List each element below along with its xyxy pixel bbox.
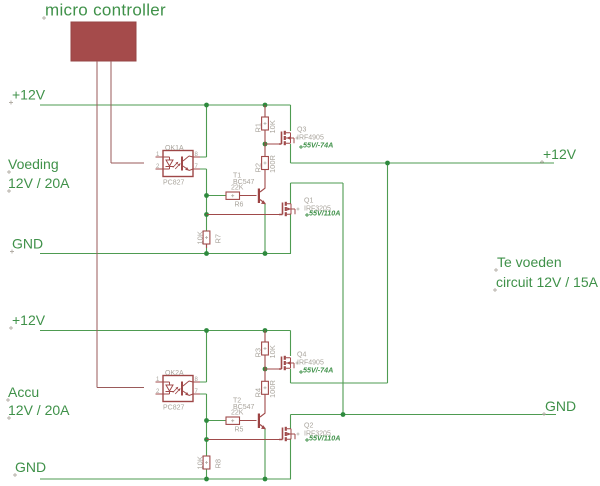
svg-text:R5: R5 xyxy=(235,427,244,434)
svg-text:12V / 20A: 12V / 20A xyxy=(8,175,70,191)
svg-text:micro controller: micro controller xyxy=(45,1,166,20)
svg-text:Q2: Q2 xyxy=(304,423,313,430)
svg-text:Voeding: Voeding xyxy=(8,156,59,172)
svg-text:55V/-74A: 55V/-74A xyxy=(303,366,333,375)
svg-text:22K: 22K xyxy=(231,410,244,417)
svg-text:22K: 22K xyxy=(231,185,244,192)
svg-text:R3: R3 xyxy=(254,348,263,358)
svg-text:GND: GND xyxy=(12,236,43,252)
svg-text:R7: R7 xyxy=(214,234,223,244)
svg-text:+12V: +12V xyxy=(12,87,46,103)
svg-text:12V / 20A: 12V / 20A xyxy=(8,402,70,418)
svg-text:+12V: +12V xyxy=(543,146,577,162)
svg-text:100R: 100R xyxy=(268,154,277,173)
svg-text:R4: R4 xyxy=(254,388,263,398)
svg-text:GND: GND xyxy=(545,398,576,414)
svg-text:Accu: Accu xyxy=(8,384,39,400)
svg-text:OK1A: OK1A xyxy=(165,145,184,152)
svg-text:10K: 10K xyxy=(196,231,205,244)
svg-text:GND: GND xyxy=(15,459,46,475)
svg-text:PC827: PC827 xyxy=(163,180,185,187)
svg-text:R2: R2 xyxy=(254,163,263,173)
svg-text:Q4: Q4 xyxy=(297,352,306,359)
svg-text:10K: 10K xyxy=(196,456,205,469)
svg-text:R1: R1 xyxy=(254,123,263,133)
svg-text:55V/110A: 55V/110A xyxy=(309,434,340,443)
svg-text:10K: 10K xyxy=(268,345,277,358)
svg-text:Q3: Q3 xyxy=(297,127,306,134)
svg-text:Te voeden: Te voeden xyxy=(497,254,562,270)
svg-text:circuit 12V / 15A: circuit 12V / 15A xyxy=(496,274,599,290)
svg-text:10K: 10K xyxy=(268,120,277,133)
svg-text:100R: 100R xyxy=(268,379,277,398)
svg-text:PC827: PC827 xyxy=(163,405,185,412)
svg-text:55V/-74A: 55V/-74A xyxy=(303,141,333,150)
svg-text:55V/110A: 55V/110A xyxy=(309,209,340,218)
svg-text:OK2A: OK2A xyxy=(165,370,184,377)
svg-text:R6: R6 xyxy=(235,202,244,209)
svg-text:+12V: +12V xyxy=(12,312,46,328)
svg-text:Q1: Q1 xyxy=(304,198,313,205)
svg-text:R8: R8 xyxy=(214,459,223,469)
